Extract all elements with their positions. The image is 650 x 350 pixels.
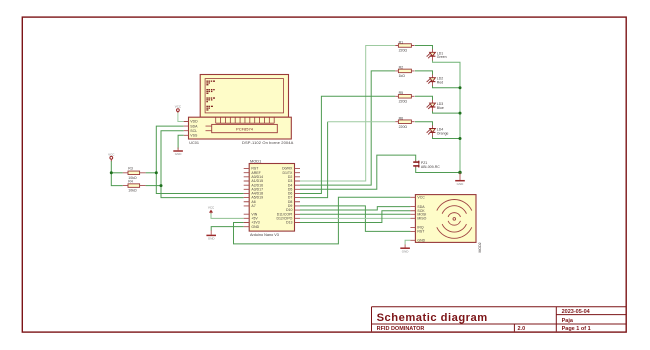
LCD pin labels: [190, 120, 198, 138]
wire: D4 to R2: [300, 71, 395, 185]
svg-text:GND: GND: [402, 249, 410, 253]
MOD1 right pin stubs: [295, 169, 301, 223]
wire: D9 to RFID RST: [300, 206, 410, 232]
svg-text:SCL: SCL: [190, 129, 197, 133]
node PZ1/bus GND junction: [458, 171, 461, 174]
svg-text:VSS: VSS: [190, 134, 198, 138]
wire: D5 to piezo PZ1: [300, 155, 416, 189]
PCF8574 stub pins: [206, 126, 212, 131]
svg-text:MISO: MISO: [417, 217, 426, 221]
LED LD4: [426, 125, 435, 136]
svg-text:Blue: Blue: [437, 106, 444, 110]
VCC symbol at LCD: [175, 105, 182, 113]
svg-text:UC01: UC01: [189, 141, 199, 145]
svg-text:PCF8574: PCF8574: [236, 126, 254, 131]
svg-text:D13: D13: [286, 221, 292, 225]
node R4/SCL junction: [160, 184, 163, 187]
wire: D11 to RFID MOSI: [300, 213, 410, 215]
node VCC/R3/R4 junction: [110, 171, 113, 174]
ground below LCD VSS: [173, 148, 183, 157]
wire: RFID GND to ground: [405, 240, 410, 244]
svg-text:R2: R2: [399, 66, 404, 70]
wire: MOD1 +3V3 to RFID VCC: [234, 197, 411, 244]
node LED4 bus junction: [459, 137, 462, 140]
LED LD1: [426, 49, 435, 60]
wire: D7 to R6: [300, 122, 328, 198]
svg-text:MOD1: MOD1: [250, 158, 261, 163]
svg-text:GND: GND: [457, 182, 465, 186]
svg-text:R5: R5: [399, 91, 404, 95]
VCC symbol at MOD1: [208, 205, 215, 213]
LED LD3: [426, 100, 435, 111]
svg-text:GND: GND: [417, 239, 425, 243]
LCD character dots row 4: [206, 106, 213, 111]
MOD1 left pin stubs: [244, 169, 250, 227]
resistor R1: [395, 44, 414, 48]
piezo PZ1: [413, 160, 440, 169]
wire: D13 to RFID SCK: [300, 211, 410, 223]
svg-text:MOD2: MOD2: [478, 242, 482, 252]
node LED3 bus junction: [459, 112, 462, 115]
resistor R4: [123, 179, 146, 192]
LCD character dots row 2: [206, 89, 214, 94]
svg-text:R6: R6: [399, 117, 404, 121]
LCD pin stubs: [184, 122, 189, 136]
wire: R2 to LED2 to bus: [415, 71, 433, 75]
svg-text:10kΩ: 10kΩ: [128, 189, 137, 193]
wire: VCC to LCD VDD: [178, 112, 184, 121]
svg-text:GND: GND: [175, 152, 183, 156]
svg-text:2.0: 2.0: [518, 326, 526, 332]
ground below MOD1: [206, 230, 216, 240]
title block: [372, 307, 626, 332]
svg-text:Schematic diagram: Schematic diagram: [377, 312, 488, 324]
wire: D12 to RFID MISO: [300, 217, 410, 219]
wire: R1 to LED1 to bus: [415, 46, 433, 50]
svg-text:SDA: SDA: [190, 124, 198, 128]
svg-text:ABI-009-RC: ABI-009-RC: [421, 165, 440, 169]
svg-text:VCC: VCC: [108, 152, 115, 156]
svg-text:Green: Green: [437, 55, 447, 59]
RFID antenna arcs: [437, 199, 472, 238]
wire: LCD VSS to GND: [178, 135, 184, 149]
svg-text:R1: R1: [399, 40, 404, 44]
svg-text:R4: R4: [128, 179, 133, 183]
wire: R5 to LED3 to bus: [415, 96, 433, 100]
wire: MOD1 GND to ground: [211, 227, 244, 231]
svg-text:1kΩ: 1kΩ: [399, 74, 406, 78]
wire: LCD SCL net down to MOD1 A5/D19: [161, 131, 244, 198]
svg-text:R3: R3: [128, 167, 133, 171]
svg-text:220Ω: 220Ω: [399, 49, 408, 53]
svg-text:Orange: Orange: [437, 131, 449, 135]
VCC symbol top-left: [108, 152, 115, 161]
LCD bezel: [200, 75, 288, 118]
wire: VCC to MOD1 +5V: [211, 213, 244, 219]
wire: left VCC down through R3/R4 lefts: [111, 161, 123, 186]
LCD lower pin box: [189, 117, 292, 139]
LCD character dots row 3: [206, 97, 215, 102]
resistor R5: [395, 95, 414, 99]
ground below RFID: [404, 245, 406, 248]
MOD1 left pin labels: [251, 167, 263, 229]
RFID pin stubs: [410, 197, 415, 240]
svg-text:RFID DOMINATOR: RFID DOMINATOR: [377, 326, 425, 332]
svg-text:GND: GND: [208, 237, 216, 241]
svg-text:A7: A7: [251, 204, 255, 208]
ground at LED bus: [455, 173, 465, 186]
MOD1 right pin labels: [276, 167, 293, 225]
svg-text:GND: GND: [251, 225, 259, 229]
node R3/SDA junction: [155, 171, 158, 174]
wire: D3 to R1: [300, 46, 395, 182]
wire: R6 to LED4 to bus: [415, 122, 433, 126]
svg-text:Page 1 of 1: Page 1 of 1: [562, 326, 591, 332]
svg-text:VCC: VCC: [208, 205, 215, 209]
node LED2 bus junction: [459, 86, 462, 89]
wire: D10 to RFID SDA: [300, 207, 410, 210]
resistor R6: [395, 120, 414, 124]
svg-text:VCC: VCC: [417, 196, 425, 200]
svg-text:2023-05-04: 2023-05-04: [562, 309, 591, 315]
svg-text:Red: Red: [437, 81, 443, 85]
module MOD1 box: [249, 164, 294, 232]
module RFID box: [415, 195, 476, 243]
svg-text:Arduino Nano V3: Arduino Nano V3: [250, 233, 279, 237]
svg-text:220Ω: 220Ω: [399, 99, 408, 103]
LED LD2: [426, 75, 435, 86]
wire: R4 right to SCL vertical: [146, 185, 161, 187]
LCD header pin ticks: [216, 117, 275, 123]
svg-text:DSP-1102 On borne 2004A: DSP-1102 On borne 2004A: [242, 140, 294, 145]
LCD character dots row 1: [206, 81, 215, 86]
wire: LCD SDA net down to MOD1 A4/D18: [156, 126, 243, 193]
resistor R3: [123, 167, 146, 180]
svg-text:RST: RST: [417, 230, 425, 234]
svg-text:220Ω: 220Ω: [399, 125, 408, 129]
wire: PZ1 bottom to GND junction: [416, 168, 460, 173]
resistor R2: [395, 69, 414, 73]
wire: R3 right to SDA vertical: [146, 172, 157, 174]
LCD screen: [205, 79, 283, 113]
svg-text:Paja: Paja: [562, 318, 574, 324]
RFID pin labels: [417, 196, 426, 243]
svg-text:VCC: VCC: [175, 105, 182, 109]
svg-text:VDD: VDD: [190, 120, 198, 124]
PCF8574 sub-box: [212, 124, 278, 132]
wire: D6 to R5: [300, 96, 395, 193]
